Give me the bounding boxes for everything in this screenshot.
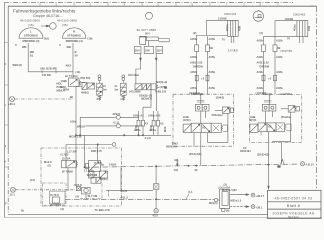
triangle symbol on rail xyxy=(281,159,285,164)
svg-text:DW 504: DW 504 xyxy=(81,76,91,80)
valve V5 xyxy=(62,143,116,191)
svg-text:A02(+L02: A02(+L02 xyxy=(257,61,270,65)
svg-text:M(3.8: M(3.8 xyxy=(75,183,83,187)
svg-text:W-7.0M: W-7.0M xyxy=(88,194,98,198)
wire E4 tail below rail xyxy=(268,165,270,188)
gauge G6 xyxy=(251,205,255,209)
svg-text:45N: 45N xyxy=(307,26,311,31)
svg-text:T(4B.1/B: T(4B.1/B xyxy=(155,89,166,93)
svg-text:+3.7(0): +3.7(0) xyxy=(60,152,69,156)
svg-text:+2: +2 xyxy=(268,77,272,81)
border frame inner left xyxy=(7,6,9,150)
svg-text:14Bb: 14Bb xyxy=(61,79,68,83)
svg-text:A2: A2 xyxy=(202,126,206,130)
svg-text:2000465: 2000465 xyxy=(293,12,306,16)
svg-text:M13.8: M13.8 xyxy=(44,160,52,164)
svg-text:(15): (15) xyxy=(30,178,35,182)
gauge G5 xyxy=(251,193,255,197)
header title text xyxy=(13,9,77,27)
svg-text:A05b: A05b xyxy=(209,86,216,90)
svg-text:(3.7VA: (3.7VA xyxy=(62,156,71,160)
svg-text:(3.70.8: (3.70.8 xyxy=(50,193,59,197)
enclosure E1b dash-dot xyxy=(43,183,67,206)
svg-text:STROMAG: STROMAG xyxy=(67,34,81,38)
unit 2000443 xyxy=(206,20,208,35)
svg-text:43.5: 43.5 xyxy=(153,214,159,218)
svg-text:2000443: 2000443 xyxy=(224,12,237,16)
svg-text:MB: MB xyxy=(30,50,34,54)
svg-text:(4): (4) xyxy=(76,194,80,198)
svg-text:DW(1.75: DW(1.75 xyxy=(91,149,102,153)
svg-text:(2): (2) xyxy=(260,31,264,35)
svg-text:A05a A05: A05a A05 xyxy=(148,114,161,118)
svg-text:93: 93 xyxy=(195,168,199,172)
gauge G4 xyxy=(300,162,304,166)
svg-text:(8(3)4(7): (8(3)4(7) xyxy=(141,97,152,101)
svg-text:A3: A3 xyxy=(145,122,149,126)
svg-text:W-7(4)M: W-7(4)M xyxy=(62,169,73,173)
svg-text:ME5K (3b: ME5K (3b xyxy=(69,134,82,138)
svg-text:6.4: 6.4 xyxy=(189,190,193,194)
svg-text:2(6): 2(6) xyxy=(44,37,49,41)
junction ticks on cross link xyxy=(42,70,56,73)
wire V3 down lines xyxy=(143,90,151,107)
svg-text:340.5BW: 340.5BW xyxy=(129,89,141,93)
enclosure E3 dash-dot xyxy=(173,94,233,146)
svg-text:A05b: A05b xyxy=(190,37,197,41)
manifold lines left xyxy=(76,115,171,136)
E4 main valve 4/3 xyxy=(250,111,291,165)
wire line A xyxy=(106,191,153,197)
couplers on P1 xyxy=(195,75,198,81)
svg-text:A05b: A05b xyxy=(190,55,197,59)
svg-text:4B: 4B xyxy=(70,95,74,99)
E3 valve ports xyxy=(194,114,228,147)
svg-text:A02b: A02b xyxy=(276,39,283,43)
svg-text:A2: A2 xyxy=(160,122,164,126)
svg-text:WB1(2): WB1(2) xyxy=(13,63,23,67)
valve V2 solenoid xyxy=(76,83,95,90)
wire vert left xyxy=(79,117,81,135)
svg-text:(50mbar: (50mbar xyxy=(281,115,292,119)
vent circle xyxy=(146,12,153,19)
svg-text:M25x1.5: M25x1.5 xyxy=(231,199,242,203)
svg-text:2x: 2x xyxy=(115,84,119,88)
arrow to pump circle xyxy=(41,25,49,27)
svg-text:46-0452-0597 04 03: 46-0452-0597 04 03 xyxy=(275,197,313,201)
svg-text:+38.1: +38.1 xyxy=(256,205,264,209)
unit 2000465 xyxy=(274,21,276,37)
couplers on P2 xyxy=(262,75,265,81)
svg-text:Blatt 8: Blatt 8 xyxy=(287,203,301,208)
svg-text:70: 70 xyxy=(287,37,291,41)
svg-text:A05b: A05b xyxy=(209,70,216,74)
E3 pilot valve xyxy=(223,107,230,114)
svg-text:A05(+L05: A05(+L05 xyxy=(190,61,203,65)
wire brake-right stem xyxy=(72,43,74,78)
svg-text:wt 74 5b4: wt 74 5b4 xyxy=(65,74,78,78)
svg-text:204: 204 xyxy=(135,49,140,53)
unit 2000465 tails xyxy=(300,37,304,43)
svg-text:15.1: 15.1 xyxy=(10,192,16,196)
E4 pilot valve xyxy=(288,106,295,113)
svg-text:40(a): 40(a) xyxy=(293,24,297,31)
svg-text:B: B xyxy=(75,50,77,54)
E4 check valves xyxy=(262,95,299,113)
svg-text:+38.17: +38.17 xyxy=(256,194,265,198)
svg-text:GW: GW xyxy=(145,49,150,53)
svg-text:Mannheim: Mannheim xyxy=(288,217,299,219)
wire brake-left stem xyxy=(27,43,29,72)
svg-text:40(a): 40(a) xyxy=(225,24,229,31)
svg-text:(3): (3) xyxy=(61,207,65,211)
svg-text:(15): (15) xyxy=(28,23,34,27)
valve V1 brake shuttle xyxy=(69,78,86,87)
valve V3 340.5BW xyxy=(135,84,167,90)
svg-text:130/98: 130/98 xyxy=(285,17,294,21)
svg-text:A02b: A02b xyxy=(257,86,264,90)
svg-text:93: 93 xyxy=(278,165,282,169)
svg-text:0950343: 0950343 xyxy=(166,145,177,149)
pump circle P xyxy=(50,23,57,30)
svg-text:4.B.13: 4.B.13 xyxy=(306,163,315,167)
tank bottom boxes xyxy=(135,47,142,54)
svg-text:130/98: 130/98 xyxy=(218,16,227,20)
pump enclosure dashes xyxy=(80,184,102,199)
svg-text:MW60RBL(4): MW60RBL(4) xyxy=(23,39,40,43)
wire V3 risers xyxy=(136,61,156,84)
relief valve stack S1 xyxy=(97,75,103,101)
svg-text:45N: 45N xyxy=(238,26,242,31)
svg-text:A05b: A05b xyxy=(190,86,197,90)
svg-text:90.4077.2888: 90.4077.2888 xyxy=(137,28,157,32)
svg-text:STROMAG: STROMAG xyxy=(24,34,38,38)
relief valve stack S2 xyxy=(120,75,126,101)
svg-text:27a: 27a xyxy=(97,97,102,101)
svg-text:MW60RBL(4): MW60RBL(4) xyxy=(66,39,83,43)
svg-text:42B.D: 42B.D xyxy=(113,112,121,116)
svg-text:2b: 2b xyxy=(21,208,25,212)
svg-text:A02b: A02b xyxy=(257,70,264,74)
svg-text:+38.4: +38.4 xyxy=(8,102,16,106)
E4 valve ports xyxy=(261,132,269,165)
svg-text:Ø141: Ø141 xyxy=(121,189,128,193)
svg-text:B2(3)+B: B2(3)+B xyxy=(157,80,168,84)
svg-text:14b: 14b xyxy=(174,168,179,172)
E3 check valves xyxy=(195,94,233,113)
svg-text:2x: 2x xyxy=(103,84,107,88)
svg-text:14(05: 14(05 xyxy=(109,162,117,166)
motor circle M xyxy=(253,10,263,21)
border tick marks left xyxy=(4,42,8,203)
enclosure E1 dash-dot xyxy=(41,148,122,206)
svg-text:WP-04M: WP-04M xyxy=(87,173,98,177)
svg-text:70: 70 xyxy=(222,37,226,41)
svg-text:5B: 5B xyxy=(210,46,214,50)
svg-text:0950494: 0950494 xyxy=(240,149,251,153)
svg-text:M6: M6 xyxy=(175,158,179,162)
svg-text:A05b: A05b xyxy=(209,37,216,41)
svg-text:M25x1.5(20: M25x1.5(20 xyxy=(222,188,237,192)
wire vert 121 xyxy=(120,167,122,191)
svg-text:B1: B1 xyxy=(30,54,34,58)
coupler X-box xyxy=(153,166,159,213)
svg-text:340.5Bw: 340.5Bw xyxy=(128,73,140,77)
wire pair P2 xyxy=(263,36,265,94)
tank drain arrows xyxy=(140,54,142,61)
svg-text:17.9(1): 17.9(1) xyxy=(84,169,93,173)
svg-text:CB DB: CB DB xyxy=(42,73,51,77)
svg-text:204: 204 xyxy=(157,49,162,53)
svg-text:17a: 17a xyxy=(120,97,125,101)
svg-text:AWMH(05: AWMH(05 xyxy=(191,92,204,96)
border tick marks top xyxy=(40,3,312,6)
svg-text:L17.5W: L17.5W xyxy=(67,149,77,153)
border frame outer left xyxy=(3,3,5,218)
pair P2 rechts xyxy=(262,21,308,95)
svg-text:2(5)4: 2(5)4 xyxy=(250,118,257,122)
svg-text:DW/DW: DW/DW xyxy=(260,65,270,69)
wire H2 xyxy=(85,125,116,127)
M6 tank tick xyxy=(176,161,179,164)
brake B-left dome (STROMAG) xyxy=(19,28,43,38)
svg-text:B(4): B(4) xyxy=(61,85,66,89)
gauge G1 xyxy=(10,97,15,102)
svg-text:mw2/VDA: mw2/VDA xyxy=(280,92,293,96)
svg-text:(DA3)4(3): (DA3)4(3) xyxy=(189,152,201,156)
svg-text:500mbar: 500mbar xyxy=(212,113,223,117)
unit 2000443 tails xyxy=(231,36,234,43)
E3 main valve 4/3 xyxy=(183,111,228,166)
svg-text:M(2x): M(2x) xyxy=(101,177,108,181)
border frame inner top xyxy=(8,5,317,7)
border frame inner right xyxy=(316,6,318,190)
brake B-right dome (STROMAG) xyxy=(63,28,86,38)
svg-text:X: X xyxy=(15,43,17,47)
unit 2000494 xyxy=(214,189,248,211)
svg-text:A02b: A02b xyxy=(276,55,283,59)
border frame outer top dash-dot xyxy=(4,2,293,4)
wire H3 collector xyxy=(76,134,171,136)
svg-text:50: 50 xyxy=(75,54,79,58)
svg-text:A05a: A05a xyxy=(134,128,141,132)
valve V4 pump control xyxy=(86,161,101,172)
svg-text:(7.4(5): (7.4(5) xyxy=(94,161,102,165)
title block xyxy=(268,190,321,218)
border frame bottom inner xyxy=(8,213,268,215)
svg-text:A02b: A02b xyxy=(257,55,264,59)
tank unit xyxy=(135,36,170,61)
svg-text:4MB(): 4MB() xyxy=(81,91,89,95)
svg-text:(2): (2) xyxy=(193,31,197,35)
svg-text:+(4(5): +(4(5) xyxy=(158,85,166,89)
wire gauge G1 dash-dot xyxy=(15,98,74,100)
svg-text:14.9(4W): 14.9(4W) xyxy=(50,203,62,207)
svg-text:A02b: A02b xyxy=(257,39,264,43)
svg-text:+2.11: +2.11 xyxy=(113,121,120,125)
svg-text:(35): (35) xyxy=(62,23,68,27)
svg-text:Links: Links xyxy=(228,49,238,53)
svg-text:AB3: AB3 xyxy=(66,64,72,68)
svg-text:Th.3Bb.LTS: Th.3Bb.LTS xyxy=(95,208,110,212)
svg-text:JOSEPH VOEGELE AG: JOSEPH VOEGELE AG xyxy=(272,212,315,216)
svg-text:A05b: A05b xyxy=(190,70,197,74)
coupler row A xyxy=(137,107,160,135)
svg-text:M2b: M2b xyxy=(163,126,167,132)
svg-text:DW/DW: DW/DW xyxy=(193,65,203,69)
svg-text:WB: WB xyxy=(22,45,27,49)
svg-text:(11): (11) xyxy=(76,70,81,74)
pair P1 links xyxy=(195,20,239,94)
svg-text:A02b: A02b xyxy=(276,70,283,74)
wire pair P1 xyxy=(196,36,198,95)
svg-text:A.(3): A.(3) xyxy=(145,136,151,140)
border frame bottom outer xyxy=(4,217,322,219)
wire V1 down xyxy=(75,87,77,136)
svg-text:X: X xyxy=(59,43,61,47)
svg-text:A02b: A02b xyxy=(276,86,283,90)
svg-text:(16): (16) xyxy=(88,37,93,41)
bottom pump valve stack xyxy=(76,171,107,194)
svg-text:A9w(4)L: A9w(4)L xyxy=(262,92,273,96)
svg-text:(3(5)4: (3(5)4 xyxy=(183,118,191,122)
svg-text:WB: WB xyxy=(67,45,72,49)
gauge G2 xyxy=(11,187,77,192)
bottom-left block xyxy=(50,191,66,204)
svg-text:204: 204 xyxy=(145,32,150,36)
svg-text:(5): (5) xyxy=(48,163,52,167)
svg-text:(6): (6) xyxy=(226,208,230,212)
svg-text:(59K3): (59K3) xyxy=(216,95,225,99)
wire line B long xyxy=(65,194,214,200)
wire H1 xyxy=(80,116,116,118)
svg-text:AB1 B2B MB: AB1 B2B MB xyxy=(40,66,57,70)
wire brake cross link xyxy=(28,71,73,73)
svg-text:rechts: rechts xyxy=(281,49,293,53)
svg-text:A05b: A05b xyxy=(209,55,216,59)
svg-text:A2: A2 xyxy=(268,125,272,129)
svg-text:(DA2)4(3): (DA2)4(3) xyxy=(257,152,269,156)
svg-text:A05(: A05( xyxy=(70,120,76,124)
svg-text:R: R xyxy=(73,30,75,34)
wire rail y167 xyxy=(84,135,297,190)
svg-text:+2: +2 xyxy=(201,77,205,81)
svg-text:M2x(5): M2x(5) xyxy=(209,201,218,205)
svg-text:Gruppe 46-0716-...: Gruppe 46-0716-... xyxy=(33,14,63,18)
border letters xyxy=(4,2,261,205)
svg-text:WB2A: WB2A xyxy=(77,124,85,128)
enclosure E4 dash-dot xyxy=(249,95,301,143)
